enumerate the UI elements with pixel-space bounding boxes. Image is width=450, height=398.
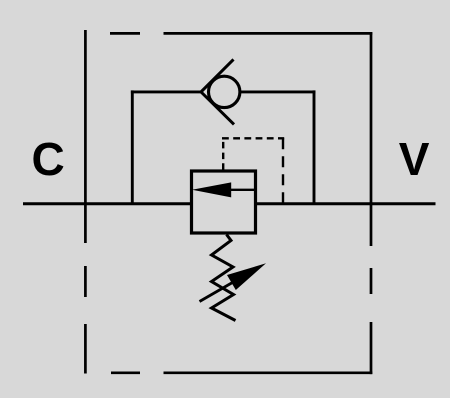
svg-text:C: C (32, 133, 65, 185)
enclosure right border (dashed) (370, 32, 373, 374)
adjustment arrow head (filled) (227, 263, 266, 290)
check valve poppet circle (209, 76, 240, 107)
relief valve flow arrow (filled, pointing left) (192, 182, 231, 197)
enclosure bottom border (dashed) (111, 371, 372, 374)
pilot line vertical down to main line (dashed) (282, 138, 284, 203)
enclosure top border (dashed) (110, 32, 372, 35)
check valve seat (V) (201, 59, 234, 124)
enclosure left border (dashed) (84, 30, 87, 374)
adjustment arrow shaft (200, 277, 243, 302)
svg-text:V: V (399, 133, 430, 185)
spring (zigzag) (212, 235, 236, 321)
wire: check valve branch right vertical (313, 90, 316, 203)
pilot line horizontal (dashed) (222, 137, 284, 139)
relief valve flow path line (230, 189, 255, 191)
wire: check valve top left horizontal (131, 90, 202, 93)
pilot line vertical from valve top (dashed) (222, 138, 224, 170)
wire: main line from valve body to port V (254, 202, 436, 205)
wire: check valve branch left vertical (131, 90, 134, 203)
wire: main line from port C to valve body (23, 202, 193, 205)
relief valve body (square envelope) (192, 171, 256, 233)
wire: check valve top right horizontal (241, 90, 316, 93)
